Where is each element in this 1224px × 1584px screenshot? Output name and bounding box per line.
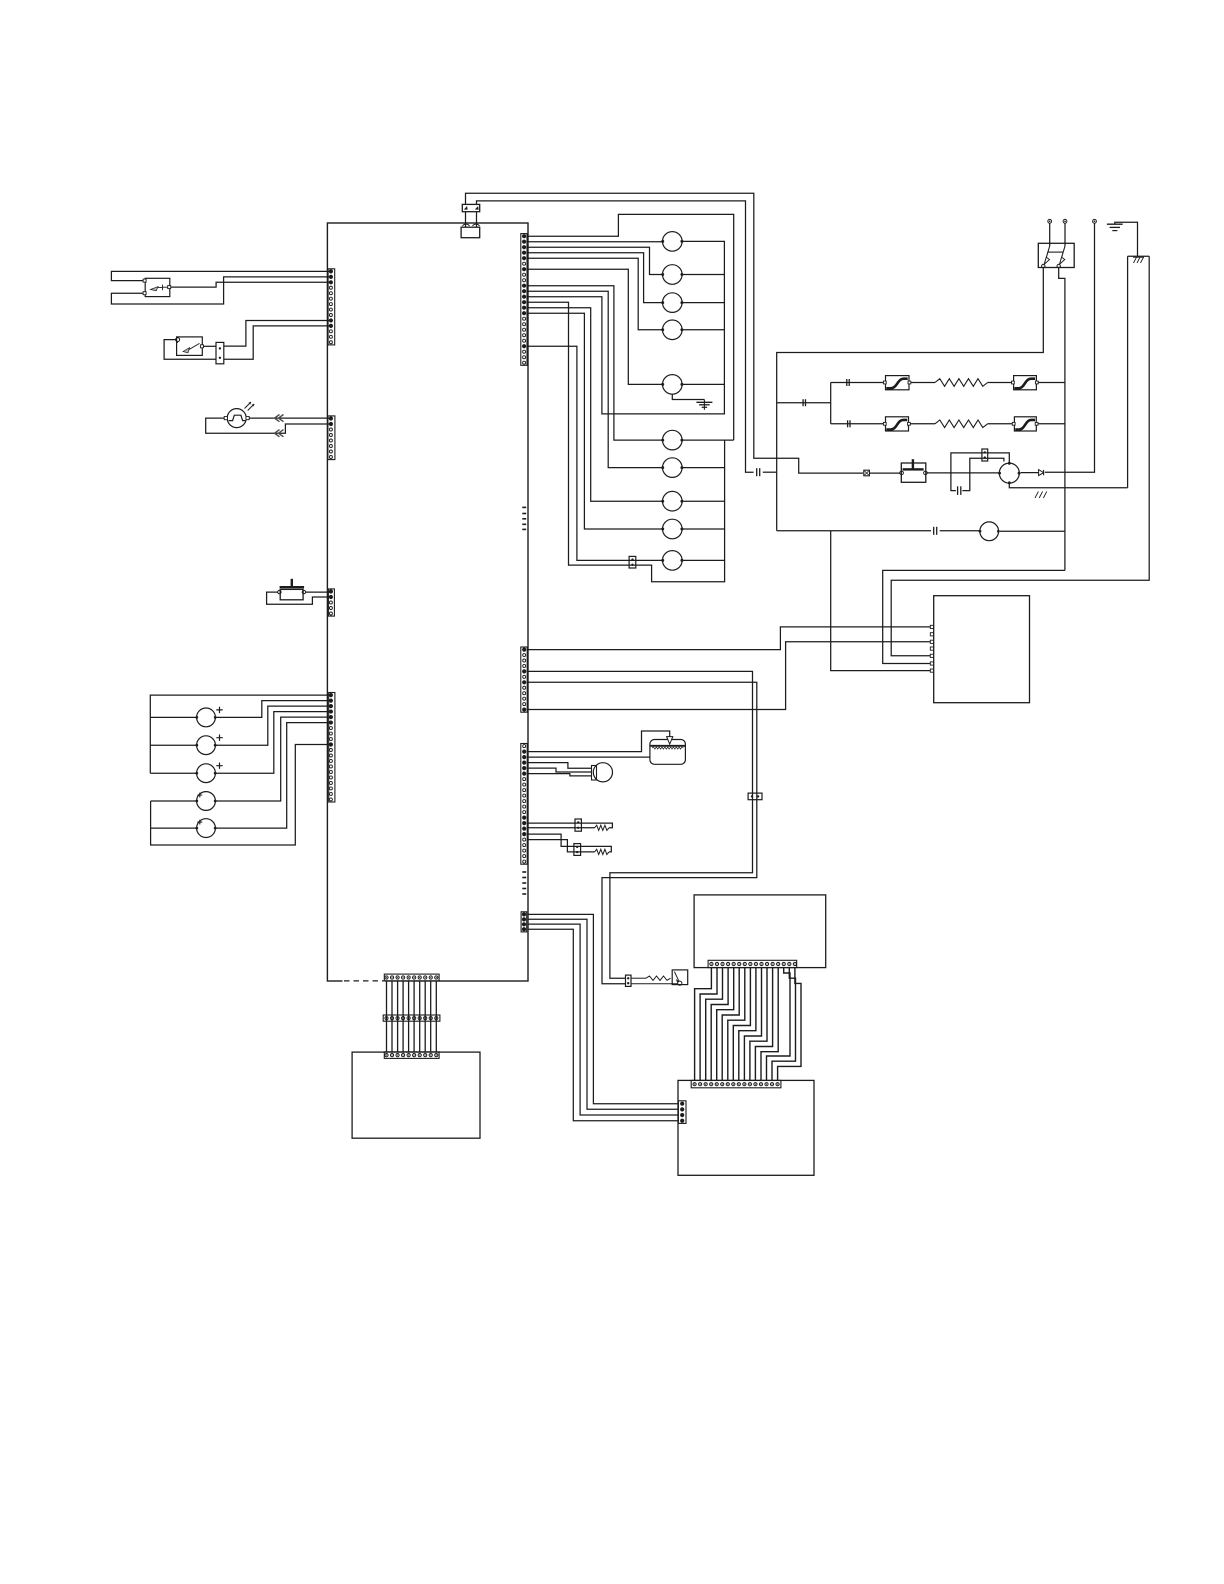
wire PS2 top pin loop to J1 pin2 and CN1 pin11 (177, 342, 179, 343)
motor M3 (197, 764, 216, 783)
clutch/solenoid CL3 (663, 293, 683, 313)
wire CN6 pin1 to PSU pin1 (527, 627, 930, 650)
connector CN8 (PCB right, 4-pin) (521, 912, 527, 932)
chassis hatch at motor ground (1035, 491, 1047, 498)
wire AC terminal3 down to fuser motor line (1045, 223, 1095, 472)
heater return with inline connector (777, 402, 831, 404)
wire CN5 pin15 to CL9 (527, 313, 662, 529)
wire CN5 pin3 to CL2 (527, 247, 662, 274)
return lead to SW2 contact (631, 983, 678, 985)
connector CN1 (PCB left, 14-pin) (328, 269, 335, 345)
wire CN7 pin3 to tank sensor (527, 756, 650, 758)
wire PS1 top pin to CN1 pin1 (111, 271, 331, 280)
wire CN6 pin5 down to operation panel switch assembly (527, 671, 752, 978)
clutch/solenoid CL4 (663, 320, 683, 340)
wire FM1 to diode and AC terminal3 riser (1021, 472, 1039, 474)
wire CN8 pin1 to panel connector pin1 (527, 914, 678, 1103)
wire H1 to thermostat TS2 (988, 382, 1014, 384)
main motor bracket (592, 766, 597, 781)
thermostat TS3 (886, 417, 909, 431)
wire bus spur to M4 (151, 800, 197, 802)
motor capacitor C2 (957, 486, 959, 495)
wire TS1 to heater element (911, 382, 935, 384)
motor frame ground line (1009, 483, 1127, 487)
wire CL6 right joining common feed (682, 439, 734, 441)
clutch/solenoid CL5 (663, 375, 683, 395)
wire SW3 pole1 down and across to heater return bus (777, 268, 1044, 531)
wire CN5 pin1 common feed over clutches to CL6 group (527, 214, 733, 440)
wire CL3 right to bus (682, 302, 724, 304)
connector CN5 (PCB right, 24-pin) (521, 234, 527, 366)
wire bus spur to M5 (151, 827, 197, 829)
fuser drive motor FM1 (999, 463, 1019, 483)
wire M2 + to CN4 pin3 (215, 706, 331, 745)
wire M3 + to CN4 pin4 (215, 712, 331, 774)
capacitor C1 on filtered line (756, 468, 758, 476)
wire H2 to thermostat TS4 (988, 423, 1015, 425)
connector CN7 (PCB right, 22-pin) (521, 744, 527, 865)
connector CN13 (panel main board, 16-pin) (691, 1080, 781, 1087)
wire PS2 output to J1 pin1 and CN1 pin10 (203, 345, 216, 347)
main control PCB outline (327, 223, 528, 981)
harness arrow on LA1 return wire (275, 430, 284, 437)
wire CN8 pin2 to panel connector pin2 (527, 919, 678, 1109)
motor M4 (197, 792, 216, 811)
wire CL2 right to bus (682, 274, 724, 276)
wire CN5 pin14 to CL8 (527, 308, 662, 502)
return bus of CL6-CL10 to CN5 pin13 (527, 302, 724, 582)
motor run capacitor loop (951, 453, 1009, 491)
fuser/exhaust lamp LA2 feed (777, 530, 931, 532)
wire CL10 right to lower bus (682, 559, 725, 561)
wire filtered line CN9-1 to door switch (466, 193, 864, 473)
wire CN5 pin21 to CL10 via inline connector (527, 346, 662, 560)
photo sensor PS1 (top left) (145, 278, 170, 296)
motor M5 (197, 819, 216, 838)
connector CN2 (PCB left, 8-pin) (328, 416, 335, 460)
fuser heater element H1 (935, 379, 988, 387)
exposure lamp LA1 (227, 409, 246, 428)
wire CL9 right to lower bus (682, 528, 725, 530)
wire CN9 pin1 to filter (vertical pair crossing PCB edge) (465, 212, 467, 228)
clutch/solenoid CL10 (663, 551, 683, 571)
inline connector J7 (cover switch harness) (626, 975, 632, 986)
connector CN9 (top of PCB, 2-pin with arrows) (462, 204, 479, 211)
inline connector J2 (CL10 harness) (629, 556, 636, 568)
thermostat TS4 (1014, 417, 1036, 431)
thermostat TS1 (886, 376, 910, 390)
dashed segment on PCB bottom edge (343, 980, 386, 983)
wire CL5 bottom to signal ground (672, 394, 704, 399)
chassis frame right side down to PSU (891, 256, 1149, 656)
wire CN5 pin5 to CL4 (527, 258, 662, 330)
clutch/solenoid CL2 (663, 265, 683, 285)
wire bus spur to M3 (150, 772, 196, 774)
board-to-board vertical harness (10 wires) (386, 981, 388, 1052)
wire CN7 pin5 to main motor (2) (527, 768, 591, 772)
connector CN12 (display board, 16-pin) (708, 960, 797, 967)
wire filtered line CN9-2 to capacitor node (477, 201, 754, 472)
wire CL8 right to lower bus (682, 500, 725, 502)
wire LA2 to neutral bus (1000, 530, 1065, 532)
wire bus spur to M2 (150, 744, 196, 746)
thermistor TH1 loop (527, 823, 612, 828)
wire CN6 pin7 down to operation panel switch assembly (527, 682, 756, 983)
wire PSU pin6 to neutral bus riser (883, 570, 1065, 663)
inline connector J4 (TH1) (575, 819, 581, 831)
wire common bus for M1-M3 to CN4 pin1 (150, 695, 331, 773)
signal ground symbol (703, 400, 705, 410)
wire J8 to SW4 (869, 472, 899, 474)
clutch/solenoid CL7 (663, 458, 683, 478)
wire common bus for M4-M5 to CN4 pin10 (151, 745, 331, 846)
clutch/solenoid CL8 (663, 491, 683, 511)
wire TS2 to neutral bus (1038, 382, 1065, 384)
wire SW3 pole2 to neutral bus (1059, 268, 1065, 571)
DC power supply unit box (934, 596, 1030, 703)
diode / varistor mark on motor output (1039, 470, 1044, 476)
wire LA1 right pin to CN2 pin1 (249, 417, 331, 419)
wire PS1 bottom pin loop to CN1 pin2 (111, 277, 331, 304)
light emission arrows of LA1 (245, 402, 255, 411)
fuser heater element H2 (935, 420, 988, 428)
wire CN6 pin12 to PSU pin3 (527, 642, 930, 710)
coil arcs of noise filter (463, 224, 470, 226)
fuser door microswitch SW4 (901, 463, 926, 482)
toner hopper / tank (650, 740, 686, 765)
unused pin tick marks on PCB right edge (lower group) (522, 871, 526, 873)
connector CN11 (feeder unit, 10-pin) (384, 1052, 439, 1059)
main motor MM1 (593, 763, 612, 782)
wire CL5 right to bus (682, 383, 724, 385)
return bus of CL1-CL5 to CN5 pin12 (527, 241, 724, 414)
flexible lead to SW2 (646, 976, 671, 980)
paper feeder unit box (352, 1052, 480, 1138)
wire PS1 output pin to CN1 pin3 (171, 282, 331, 287)
earth ground symbol (1107, 223, 1123, 225)
chassis frame top edge (1128, 255, 1150, 257)
sensor PS2 (document sensor) (177, 337, 203, 356)
noise filter / transformer block on PCB top edge (461, 227, 480, 238)
wire LA1 left pin return loop to CN2 pin2 (206, 418, 331, 433)
wire PSU pin7 to lamp feed node (831, 531, 931, 671)
inline connector J1 (sensor PS2 harness) (216, 342, 224, 363)
AC line terminal 2 (1063, 219, 1067, 223)
wire CN5 pin11 to CL7 (527, 291, 662, 467)
inline connector J9 (motor capacitor) (982, 449, 988, 461)
AC line terminal 3 (1093, 219, 1097, 223)
wire M5 + to CN4 pin6 (215, 723, 331, 829)
wire CN8 pin4 to panel connector pin4 (527, 929, 678, 1120)
heater branch junction vertical (830, 383, 832, 424)
motor M2 (197, 736, 216, 755)
wire M4 + to CN4 pin5 (215, 717, 331, 801)
power supply input pin stubs (930, 625, 933, 628)
clutch/solenoid CL6 (663, 430, 683, 450)
wire CN8 pin3 to panel connector pin3 (527, 924, 678, 1115)
thermostat TS2 (1014, 376, 1037, 390)
wire CN5 pin7 to CL5 (527, 269, 662, 384)
harness arrow on LA1 feed wire (275, 415, 284, 422)
wire TS3 to heater element H2 (910, 423, 935, 425)
capacitor C3 on lamp line (933, 527, 935, 535)
wire CN5 pin2 to CL1 (527, 241, 662, 243)
connector CN10 (PCB bottom edge, 10-pin) (384, 974, 439, 981)
inline connector J5 (TH2) (574, 844, 581, 856)
wire SW1 left pin loop to CN3 pin2 (267, 592, 331, 604)
clutch/solenoid CL1 (663, 232, 683, 252)
chassis ground hatch (1134, 257, 1144, 263)
cooling fan / lamp LA2 (980, 522, 999, 541)
inline connector J8 (door switch lead) (864, 470, 870, 476)
operation panel main board box (678, 1080, 814, 1175)
chassis frame left side down to neutral (1127, 256, 1129, 487)
toner supply arrow into tank (527, 731, 669, 752)
wire CN5 pin4 to CL3 (527, 253, 662, 303)
interlock microswitch SW1 (left) (280, 589, 303, 599)
main power switch SW3 (DPST) (1038, 243, 1074, 267)
fuser heater lower branch (831, 423, 886, 425)
connector CN4 (PCB left, 20-pin) (329, 693, 335, 803)
connector CN6 (PCB right, 12-pin) (521, 647, 527, 712)
connector CN14 (panel main board left, 4-pin) (678, 1101, 686, 1124)
wire CL7 right to lower bus (682, 467, 725, 469)
wire CN7 pin6 to main motor (3) (527, 774, 591, 776)
thermistor TH2 loop (527, 834, 611, 852)
wire SW4 to fuser drive motor (927, 472, 998, 474)
wire CN7 pin4 to main motor (1) (527, 763, 591, 769)
clutch/solenoid CL9 (663, 519, 683, 539)
AC line terminal 1 (1048, 219, 1052, 223)
wire earth ground to chassis frame (1115, 222, 1138, 256)
wire TS4 to neutral bus (1038, 423, 1065, 425)
connector CN3 (PCB left, 5-pin) (328, 589, 334, 616)
motor M1 (197, 708, 216, 727)
wire M1 + to CN4 pin2 (215, 701, 331, 718)
wire CL4 right to bus (682, 329, 724, 331)
wire bus spur to M1 (150, 716, 196, 718)
fuser heater upper branch (831, 382, 886, 384)
unused pin tick marks on PCB right edge (upper group) (522, 506, 526, 508)
operation panel display board box (694, 895, 826, 968)
panel harness wire group (16 wires) (695, 968, 712, 1081)
panel cover switch SW2 (672, 970, 688, 985)
wire SW1 right pin to CN3 pin1 (306, 591, 331, 593)
inline connector J6 (10-pin) (383, 1015, 440, 1021)
inline connector J3 (panel harness pair) (748, 793, 762, 800)
wire CN5 pin10 to CL6 (527, 286, 662, 440)
